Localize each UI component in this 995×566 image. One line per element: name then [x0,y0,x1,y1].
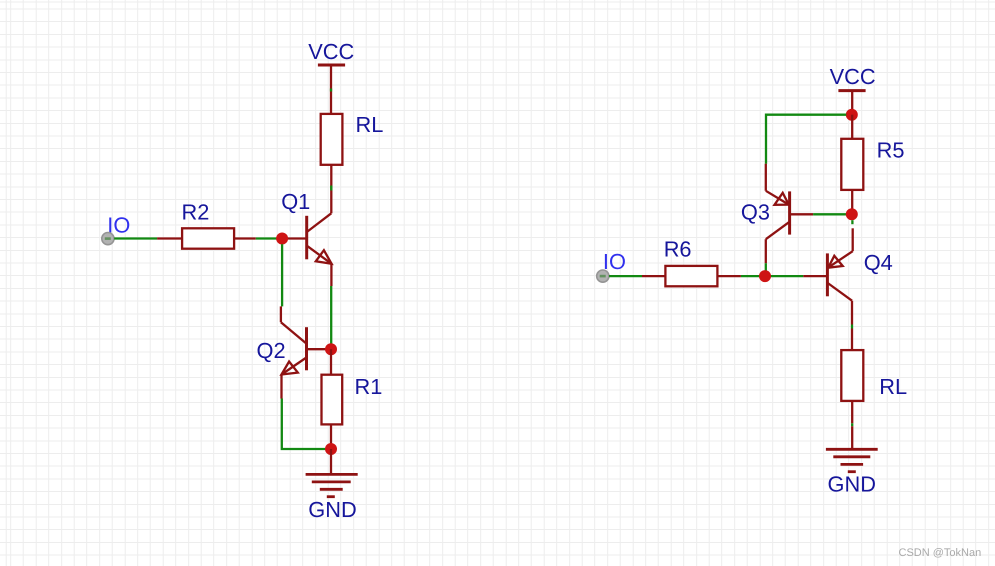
svg-text:Q3: Q3 [741,200,770,225]
transistor Q2 [281,306,331,398]
wire node B to R1 [330,349,332,375]
svg-text:R2: R2 [182,200,210,225]
wire green segment above GND (right) [851,423,853,426]
svg-text:R5: R5 [877,137,905,162]
resistor R5 [841,139,863,190]
transistor Q3 [766,164,813,264]
svg-text:GND: GND [828,472,876,497]
svg-text:Q2: Q2 [257,338,286,363]
junction node F [759,270,771,282]
wire R2 to junction [256,237,282,239]
junction node E [846,208,858,220]
pin R2 left [157,237,182,239]
svg-text:R1: R1 [355,374,383,399]
wire green segment Q4 collector [851,325,853,329]
wire IO to R2 [114,237,157,239]
svg-text:R6: R6 [664,237,692,262]
junction node C [325,443,337,455]
pin RL bottom (right) [851,401,853,423]
wire Q1 emitter green down to node B [330,286,332,344]
svg-text:CSDN @TokNan: CSDN @TokNan [899,547,982,559]
pin R5 top [851,115,853,139]
svg-text:GND: GND [308,497,356,522]
wire Q3 collector to node F [765,263,767,276]
svg-text:Q1: Q1 [281,189,310,214]
svg-text:VCC: VCC [308,39,354,64]
resistor RL (right) [841,350,863,401]
wire node C to ground [330,449,332,474]
pin R5 bottom [851,190,853,214]
ground GND (left) [306,474,358,496]
terminal dot IO (left) [102,233,114,245]
pin R6 left [642,275,665,277]
power VCC (left) [308,39,354,114]
junction node B [325,343,337,355]
svg-text:RL: RL [356,112,384,137]
resistor R1 [322,375,343,425]
svg-text:VCC: VCC [830,64,876,89]
resistor RL (left) [321,114,343,165]
power VCC (right) [830,64,876,115]
wire green segment below node E [851,220,853,224]
transistor Q1 [282,213,332,286]
svg-text:RL: RL [879,374,907,399]
pin R1 bottom [330,424,332,449]
wire VCC-to-RL green segment [330,89,332,92]
resistor R6 [665,266,717,286]
wire node D to Q3 emitter [766,115,846,164]
pin R2 right [234,237,256,239]
junction node A [276,233,288,245]
wire Q2 emitter down [282,399,331,450]
wire RL to Q1 collector [330,165,332,214]
wire junction down to Q2 collector [281,244,283,306]
resistor R2 [182,228,234,248]
junction node D [846,109,858,121]
wire IO to R6 [609,275,642,277]
wire R6 to Q4 base [741,275,803,277]
transistor Q4 [803,228,852,324]
wire green segment RL-Q1 [330,186,332,191]
svg-text:Q4: Q4 [864,250,893,275]
terminal dot IO (right) [597,270,609,282]
pin RL top (right) [851,329,853,351]
wire Q3 base to node E [813,213,852,215]
wire to GND (right) [851,426,853,449]
pin R6 right [717,275,741,277]
ground GND (right) [826,449,878,471]
